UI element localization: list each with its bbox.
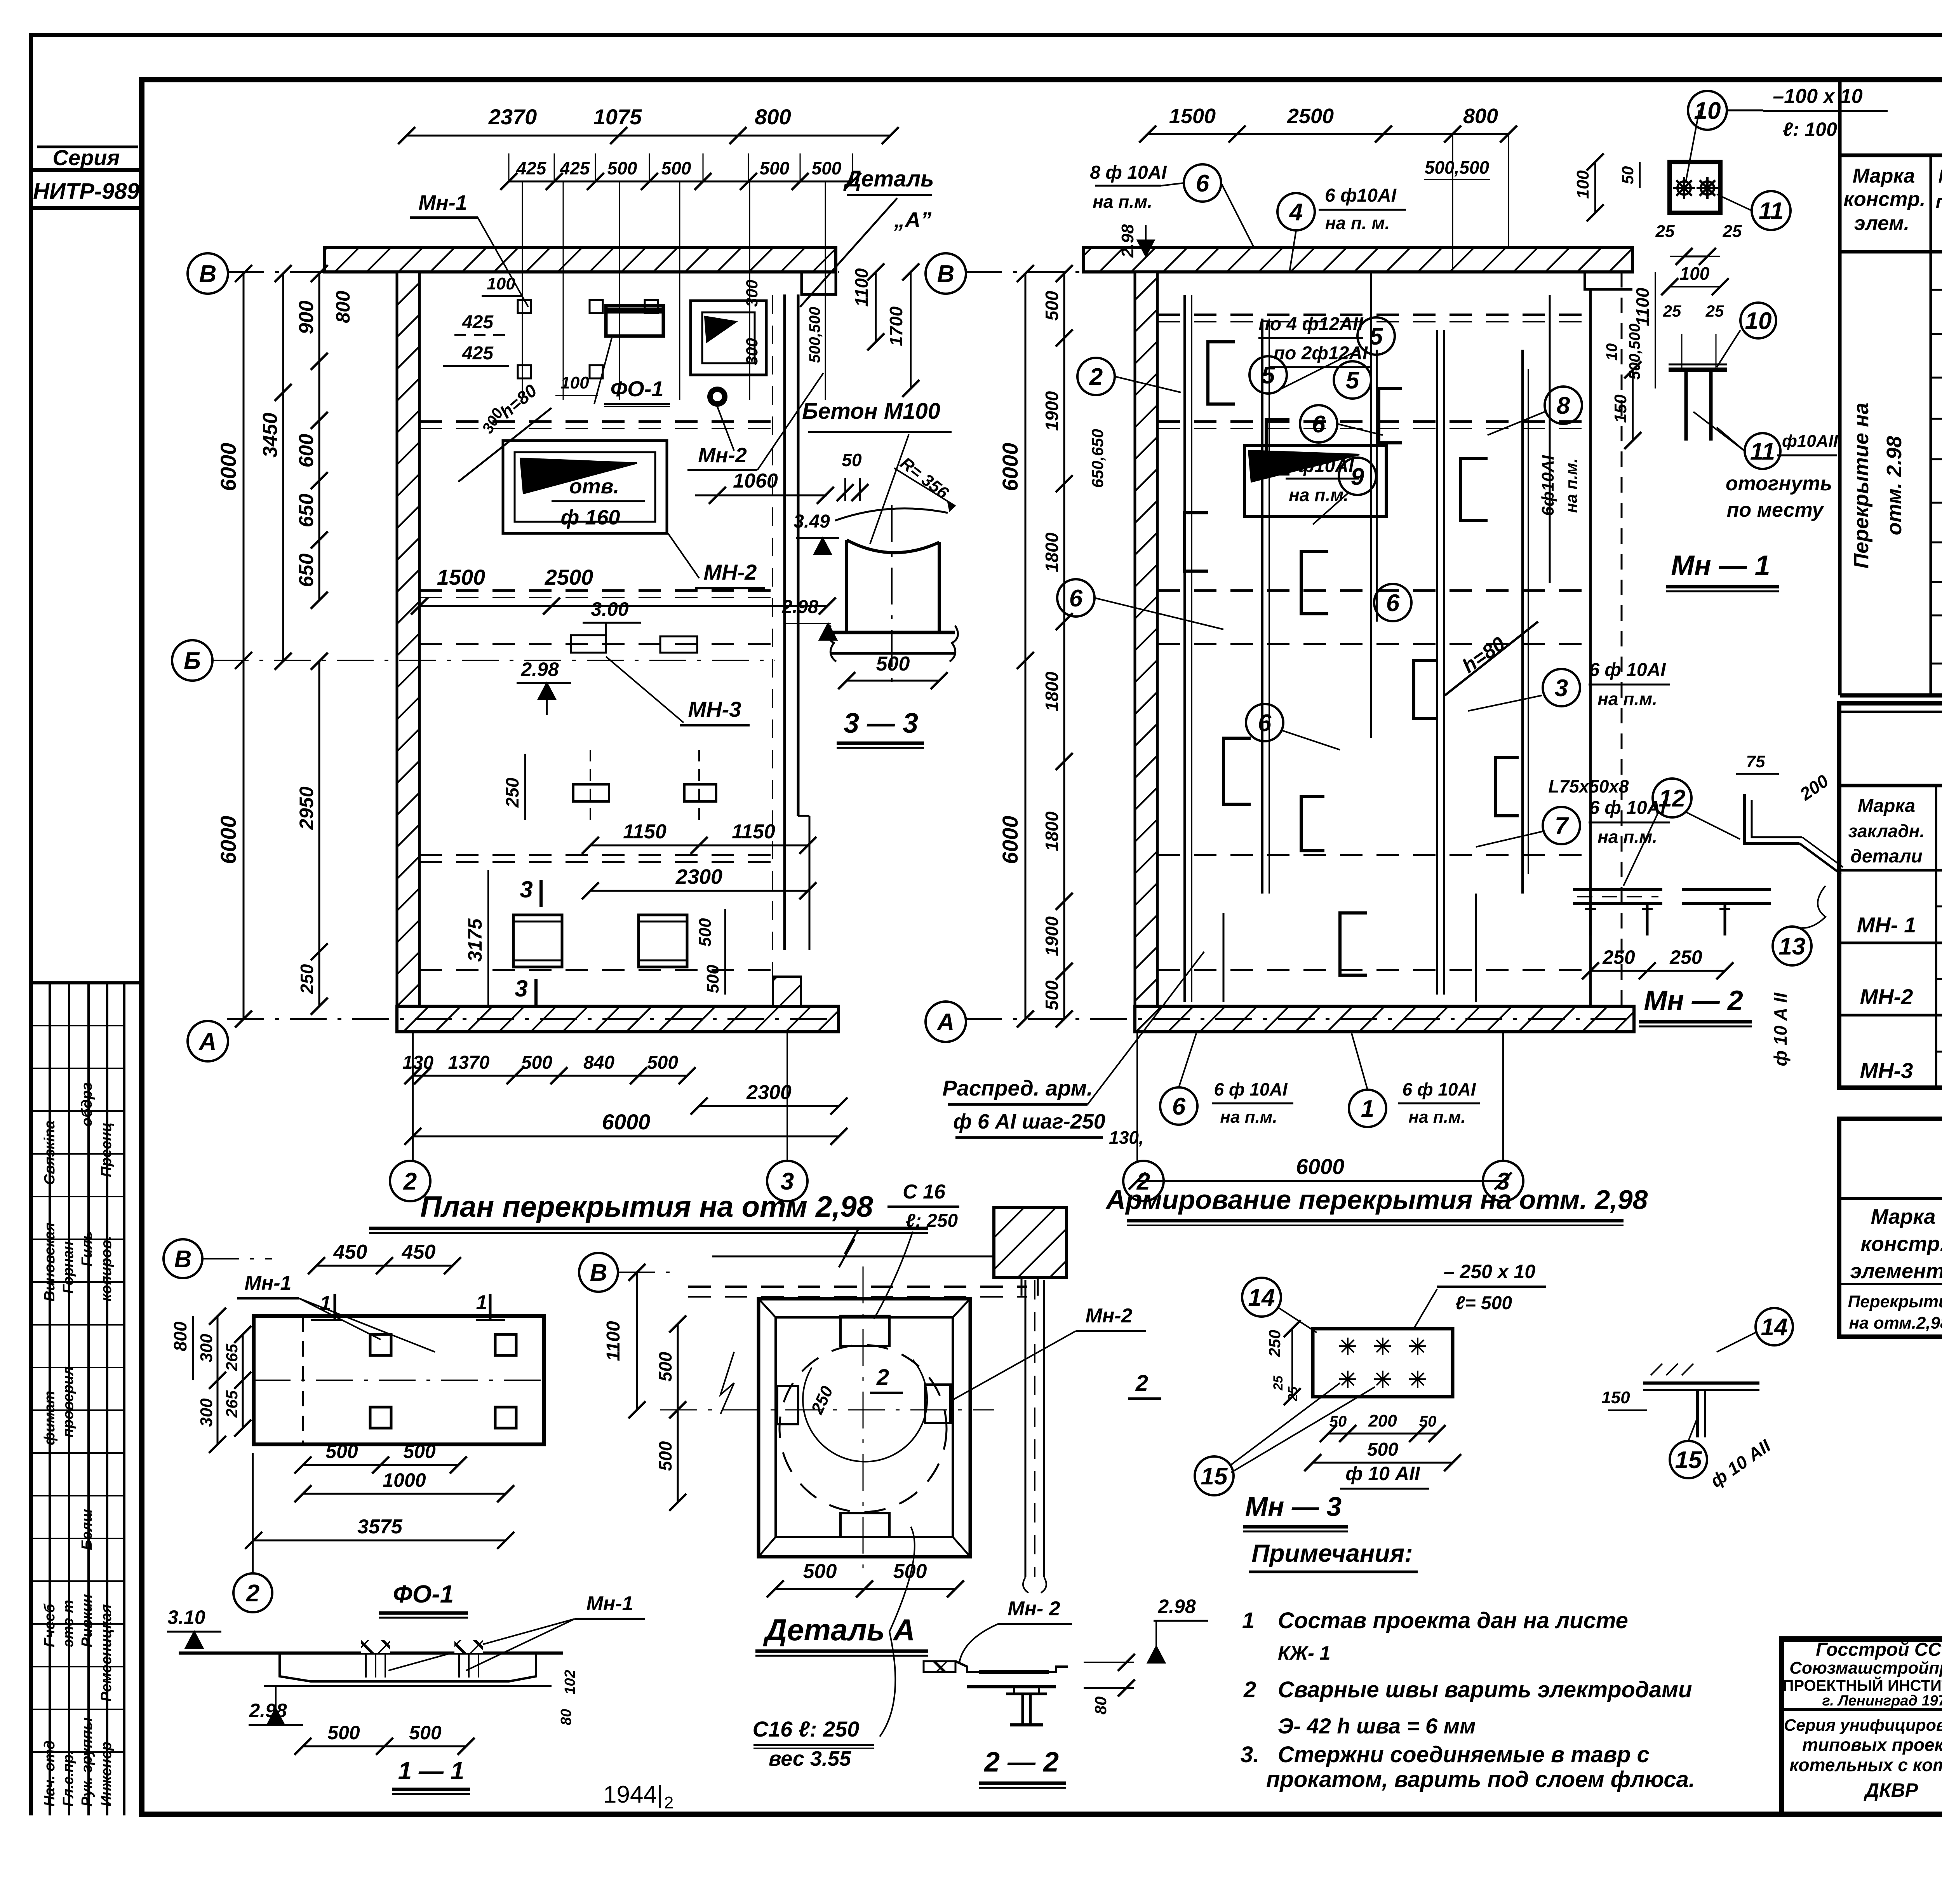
Mn3 dims bottom <box>1304 1411 1461 1471</box>
right circled 6b <box>1374 584 1411 621</box>
svg-text:300: 300 <box>197 1334 216 1362</box>
svg-text:Перекрытие на: Перекрытие на <box>1850 402 1873 568</box>
titleblock org <box>1783 1639 1942 1801</box>
axis line B <box>227 271 839 273</box>
svg-text:500: 500 <box>703 965 722 993</box>
circled 4 top <box>1277 185 1406 272</box>
sec11 label Mn1 <box>388 1592 645 1671</box>
svg-text:элемента: элемента <box>1850 1259 1942 1283</box>
left plan title <box>369 1190 928 1233</box>
svg-text:250: 250 <box>297 964 317 994</box>
axis line Bm <box>212 660 775 661</box>
notes heading <box>1249 1539 1418 1572</box>
svg-text:150: 150 <box>1601 1388 1630 1407</box>
svg-text:250: 250 <box>1602 946 1635 968</box>
svg-text:100: 100 <box>1573 170 1592 199</box>
FO1 axis 2 <box>233 1453 272 1612</box>
table2 header text <box>1848 788 1942 868</box>
svg-text:25: 25 <box>1663 302 1681 320</box>
detA top dashed <box>688 1287 1027 1297</box>
svg-text:на п.м.: на п.м. <box>1597 827 1657 847</box>
svg-text:Союзмашстройпроект: Союзмашстройпроект <box>1789 1658 1942 1678</box>
small rects mid <box>571 635 697 653</box>
svg-text:300: 300 <box>743 338 761 365</box>
svg-text:8: 8 <box>1557 392 1570 419</box>
dashed line y1658 <box>419 643 771 645</box>
svg-text:ДКВР: ДКВР <box>1864 1779 1918 1801</box>
right dim chain 500-1900 <box>1042 265 1073 1028</box>
svg-text:В: В <box>199 261 217 287</box>
page outer border top <box>29 33 1942 37</box>
svg-text:1: 1 <box>1361 1096 1374 1122</box>
svg-text:9: 9 <box>1351 463 1364 490</box>
detA label Mn-2 <box>952 1305 1146 1401</box>
svg-text:НИТР-989: НИТР-989 <box>33 179 139 204</box>
svg-text:250: 250 <box>1669 946 1702 968</box>
svg-text:Мн — 2: Мн — 2 <box>1644 985 1743 1016</box>
right top dim 500500 <box>1424 134 1509 272</box>
circled 6 top <box>1184 164 1255 249</box>
right circled 2 <box>1077 358 1181 395</box>
opening otv f160 <box>503 441 667 533</box>
svg-text:265: 265 <box>223 1390 241 1418</box>
svg-text:2.98: 2.98 <box>1157 1596 1196 1617</box>
svg-text:Рук. группы: Рук. группы <box>79 1718 95 1806</box>
svg-text:ПРОЕКТНЫЙ ИНСТИТУТ №1: ПРОЕКТНЫЙ ИНСТИТУТ №1 <box>1783 1676 1942 1694</box>
Mn1 side view <box>1663 302 1776 441</box>
svg-text:500,500: 500,500 <box>1425 157 1490 178</box>
sec11 mark 298 <box>249 1686 303 1725</box>
svg-text:Мн- 2: Мн- 2 <box>1008 1597 1060 1620</box>
Mn3 circled 14 <box>1242 1278 1317 1333</box>
table3 header <box>1850 1201 1942 1284</box>
svg-text:200: 200 <box>1368 1411 1397 1430</box>
Mn1 circled 11a <box>1717 191 1791 230</box>
svg-text:3: 3 <box>515 976 527 1002</box>
svg-text:25: 25 <box>1705 302 1724 320</box>
Mn2 title <box>1639 985 1752 1026</box>
svg-text:детали: детали <box>1850 846 1923 867</box>
section 3-3 body <box>828 505 958 684</box>
Mn3 title <box>1243 1491 1348 1531</box>
svg-text:3.10: 3.10 <box>167 1606 205 1628</box>
svg-text:500: 500 <box>661 158 691 178</box>
svg-text:План перекрытия на отм 2,98: План перекрытия на отм 2,98 <box>420 1190 874 1223</box>
label MH-3 <box>606 657 750 725</box>
svg-text:ℓ: 250: ℓ: 250 <box>906 1211 958 1231</box>
svg-text:Сварные швы варить электродами: Сварные швы варить электродами <box>1278 1677 1692 1702</box>
FO1 anchors <box>370 1334 516 1428</box>
svg-text:закладн.: закладн. <box>1848 821 1925 841</box>
label 3.00 <box>583 598 641 641</box>
dashed row y2497 <box>419 969 771 971</box>
svg-text:300: 300 <box>197 1398 216 1427</box>
svg-text:840: 840 <box>583 1052 614 1073</box>
slope mark h80 <box>458 380 552 482</box>
svg-text:5: 5 <box>1369 323 1383 350</box>
svg-text:Связкina: Связкina <box>42 1120 58 1185</box>
svg-text:150: 150 <box>1611 394 1630 423</box>
svg-text:6: 6 <box>1312 411 1326 438</box>
svg-text:типовых проектов: типовых проектов <box>1802 1735 1942 1755</box>
svg-text:N N: N N <box>1939 166 1942 187</box>
svg-text:1500: 1500 <box>1169 105 1216 128</box>
right plan title <box>1105 1185 1648 1225</box>
right opening box <box>1244 446 1386 517</box>
right circled 7 <box>1476 798 1670 847</box>
svg-text:3: 3 <box>520 876 532 902</box>
svg-text:500: 500 <box>803 1560 837 1583</box>
svg-text:2500: 2500 <box>545 565 593 589</box>
right plan right edge <box>1590 272 1622 1006</box>
svg-text:130,: 130, <box>1109 1127 1144 1148</box>
FO1 dims bottom <box>245 1441 514 1549</box>
svg-text:500: 500 <box>655 1441 675 1471</box>
table3 outer <box>1839 1119 1942 1337</box>
svg-text:Состав проекта дан на листе: Состав проекта дан на листе <box>1278 1608 1628 1633</box>
left plan top dim row1 <box>398 105 899 144</box>
svg-text:Мн-1: Мн-1 <box>586 1592 633 1615</box>
right axis circle B <box>926 253 966 294</box>
svg-text:800: 800 <box>1463 105 1498 128</box>
svg-text:2.98: 2.98 <box>1118 224 1137 258</box>
svg-text:Гл.с.пр.: Гл.с.пр. <box>60 1750 77 1806</box>
sec22 mark 298 <box>1148 1596 1208 1663</box>
svg-text:500: 500 <box>327 1722 360 1744</box>
Mn3 label 250x10 <box>1414 1261 1546 1329</box>
footing box 2 <box>639 915 687 967</box>
svg-text:500: 500 <box>403 1441 436 1462</box>
svg-text:3: 3 <box>1555 675 1568 702</box>
axis circle 2 right <box>1123 1033 1164 1201</box>
svg-text:50: 50 <box>842 450 862 470</box>
svg-text:500: 500 <box>521 1052 552 1073</box>
Mn2 dims <box>1582 886 1825 1066</box>
svg-text:500: 500 <box>655 1352 675 1381</box>
label 2.98 left <box>517 658 571 715</box>
svg-text:ФО-1: ФО-1 <box>393 1580 454 1608</box>
svg-text:МН-3: МН-3 <box>688 697 741 721</box>
svg-text:Преснц: Преснц <box>98 1122 115 1177</box>
svg-text:2: 2 <box>1089 364 1103 390</box>
small sq markers <box>518 300 658 378</box>
Mn2 bars <box>1573 890 1771 935</box>
dim 300 300 <box>743 280 761 365</box>
right plan interior <box>1185 272 1550 1002</box>
svg-text:1944|: 1944| <box>603 1781 663 1808</box>
svg-text:отм. 2.98: отм. 2.98 <box>1883 436 1906 535</box>
svg-text:Бетон М100: Бетон М100 <box>802 399 940 424</box>
detA box <box>660 1266 994 1570</box>
svg-text:500,500: 500,500 <box>1626 324 1643 380</box>
svg-text:Мн-2: Мн-2 <box>698 444 747 467</box>
svg-text:11: 11 <box>1750 438 1775 465</box>
svg-text:1150: 1150 <box>732 820 775 843</box>
svg-text:500: 500 <box>1042 980 1062 1010</box>
svg-text:L75х50х8: L75х50х8 <box>1548 776 1629 796</box>
svg-text:А: А <box>198 1028 217 1055</box>
detA dims left <box>603 1264 686 1511</box>
left plan left wall <box>397 272 419 1006</box>
Mn1 plate plan <box>1670 110 1720 213</box>
right label 298 rot <box>1118 224 1154 258</box>
svg-text:–100 х 10: –100 х 10 <box>1773 85 1862 108</box>
label FO-1 <box>594 338 670 406</box>
opening FO-1 rect <box>606 306 663 336</box>
right bottom circled 1 <box>1349 1033 1480 1127</box>
svg-text:В: В <box>590 1259 607 1286</box>
svg-text:1800: 1800 <box>1042 532 1062 572</box>
svg-text:80: 80 <box>1091 1697 1110 1715</box>
svg-text:Мн-1: Мн-1 <box>245 1272 292 1294</box>
section mark 3 lower <box>515 976 536 1006</box>
svg-text:2: 2 <box>664 1793 673 1812</box>
svg-text:КЖ- 1: КЖ- 1 <box>1278 1642 1330 1664</box>
svg-text:6: 6 <box>1196 170 1209 197</box>
svg-text:11: 11 <box>1759 198 1784 225</box>
table2 outer <box>1839 703 1942 1088</box>
sec11 title <box>392 1757 470 1794</box>
svg-text:2 — 2: 2 — 2 <box>983 1747 1059 1778</box>
table3 data <box>1848 1292 1942 1333</box>
seriya box <box>31 145 142 208</box>
table1 side label <box>1850 402 1906 568</box>
svg-text:ℓ: 100: ℓ: 100 <box>1783 118 1837 140</box>
svg-text:2.98: 2.98 <box>781 597 818 617</box>
svg-text:6000: 6000 <box>216 443 240 491</box>
svg-text:на п.м.: на п.м. <box>1289 485 1349 505</box>
svg-text:800: 800 <box>755 105 791 129</box>
svg-text:Мн-1: Мн-1 <box>418 191 467 214</box>
svg-text:2300: 2300 <box>746 1081 792 1104</box>
svg-text:500: 500 <box>893 1560 927 1583</box>
label MH-2 low <box>668 533 765 588</box>
svg-text:50: 50 <box>1329 1413 1347 1430</box>
detA break line top <box>712 1228 1006 1267</box>
opening square top <box>691 301 766 375</box>
dim chain 900-600-650 <box>295 265 354 609</box>
dim 100 lower <box>555 373 598 395</box>
svg-text:Ремесницкая: Ремесницкая <box>98 1604 115 1702</box>
svg-text:250: 250 <box>1265 1330 1284 1357</box>
svg-text:вес 3.55: вес 3.55 <box>769 1747 851 1770</box>
svg-text:2: 2 <box>876 1365 889 1390</box>
svg-text:1060: 1060 <box>733 470 778 492</box>
sec11 dims <box>294 1670 578 1755</box>
right plan top wall band <box>1084 247 1632 289</box>
svg-text:500: 500 <box>696 918 715 947</box>
tee detail <box>1601 1308 1793 1491</box>
dim chain 6000 left <box>216 265 252 1028</box>
svg-text:10: 10 <box>1745 308 1772 334</box>
svg-text:г. Ленинград 1970г: г. Ленинград 1970г <box>1822 1693 1942 1709</box>
FO1 section marks 1 <box>311 1291 505 1320</box>
svg-text:500: 500 <box>760 158 790 178</box>
svg-text:МН-3: МН-3 <box>1860 1058 1913 1083</box>
table3 grid <box>1839 1198 1942 1337</box>
right circled 9 <box>1313 458 1376 524</box>
svg-text:ф 160: ф 160 <box>561 506 620 529</box>
black dot node <box>707 387 727 407</box>
svg-text:констр.: констр. <box>1860 1232 1942 1256</box>
svg-text:ф 6 АI шаг-250: ф 6 АI шаг-250 <box>953 1110 1105 1133</box>
svg-text:15: 15 <box>1675 1447 1702 1474</box>
right dim chain 6000 <box>998 265 1034 1028</box>
svg-text:Примечания:: Примечания: <box>1251 1539 1413 1567</box>
svg-text:10: 10 <box>1603 343 1620 361</box>
svg-text:6: 6 <box>1069 585 1083 612</box>
dim 3175 <box>464 870 488 1006</box>
section mark 3 upper <box>520 876 541 907</box>
label Mn-2 top <box>687 373 823 470</box>
svg-text:13: 13 <box>1779 933 1806 960</box>
svg-text:на п.м.: на п.м. <box>1220 1108 1277 1127</box>
svg-text:25: 25 <box>1723 222 1742 241</box>
svg-text:1800: 1800 <box>1042 671 1062 711</box>
svg-text:3.49: 3.49 <box>794 511 830 532</box>
svg-text:Виновская: Виновская <box>42 1223 58 1301</box>
svg-text:1500: 1500 <box>437 565 486 589</box>
Mn1 bolts <box>1673 177 1718 199</box>
strip openings row <box>573 750 716 820</box>
svg-text:6000: 6000 <box>1296 1154 1345 1179</box>
Mn3 plate <box>1313 1329 1453 1397</box>
svg-text:Перекрытие: Перекрытие <box>1848 1292 1942 1311</box>
dim 1500 2500 <box>411 565 836 615</box>
svg-text:500: 500 <box>1367 1439 1398 1460</box>
right plan bottom wall band <box>1135 1006 1634 1032</box>
svg-text:Гчсеб: Гчсеб <box>42 1603 58 1647</box>
svg-text:2: 2 <box>403 1168 417 1195</box>
svg-text:6 ф 10АI: 6 ф 10АI <box>1214 1079 1288 1099</box>
svg-text:75: 75 <box>1746 752 1765 771</box>
svg-text:25: 25 <box>1655 222 1675 241</box>
svg-text:300: 300 <box>743 280 761 307</box>
dashed line y1520 <box>419 591 771 598</box>
label detail A ref <box>800 166 934 307</box>
svg-text:Марка: Марка <box>1871 1205 1936 1228</box>
svg-text:Армирование перекрытия на отм.: Армирование перекрытия на отм. 2,98 <box>1105 1185 1648 1215</box>
svg-text:констр.: констр. <box>1844 188 1926 211</box>
Mn1 side dims <box>1603 343 1838 469</box>
svg-text:3450: 3450 <box>259 413 282 458</box>
dim 500 rot pair <box>696 909 725 995</box>
Mn3 circled 15 <box>1195 1383 1429 1495</box>
svg-text:12: 12 <box>1659 785 1686 812</box>
svg-text:5: 5 <box>1262 362 1276 389</box>
svg-text:6 ф 10АI: 6 ф 10АI <box>1402 1079 1476 1099</box>
svg-text:50: 50 <box>1419 1413 1437 1430</box>
svg-text:Белш: Белш <box>79 1509 95 1550</box>
detA inner label 2 <box>807 1365 1161 1417</box>
note 1 <box>1242 1608 1628 1664</box>
svg-text:элем.: элем. <box>1854 212 1909 235</box>
right texts 4f12 <box>1258 314 1371 367</box>
svg-text:Распред. арм.: Распред. арм. <box>942 1076 1093 1100</box>
svg-text:фимат: фимат <box>42 1391 58 1445</box>
left plan bottom dims <box>402 1052 847 1145</box>
svg-text:обдрг: обдрг <box>79 1082 95 1127</box>
svg-text:14: 14 <box>1248 1284 1275 1311</box>
axis circle 3 right <box>1483 1033 1523 1201</box>
svg-text:102: 102 <box>562 1670 578 1694</box>
svg-text:А: А <box>936 1009 955 1036</box>
detA title <box>755 1613 928 1656</box>
dim 250 rot <box>502 754 525 820</box>
dim 2300 mid <box>582 865 816 899</box>
sec22 title <box>979 1747 1066 1788</box>
note 3 <box>1241 1742 1695 1792</box>
svg-text:100: 100 <box>487 274 515 293</box>
svg-text:6: 6 <box>1172 1093 1186 1120</box>
svg-text:отогнуть: отогнуть <box>1726 472 1832 495</box>
svg-text:6000: 6000 <box>602 1110 651 1134</box>
svg-text:425: 425 <box>462 312 494 333</box>
svg-text:Марка: Марка <box>1858 796 1915 816</box>
svg-text:500,500: 500,500 <box>806 307 823 363</box>
svg-text:„А”: „А” <box>894 207 931 232</box>
svg-text:на п.м.: на п.м. <box>1093 192 1152 212</box>
svg-text:6000: 6000 <box>998 443 1022 491</box>
detA hatched square <box>994 1207 1067 1296</box>
svg-text:80: 80 <box>558 1709 574 1725</box>
FO1 plate <box>254 1316 544 1444</box>
svg-text:1100: 1100 <box>1632 287 1653 326</box>
Mn2 circled 12 <box>1548 776 1740 886</box>
svg-text:ℓ= 500: ℓ= 500 <box>1455 1293 1512 1313</box>
svg-text:425: 425 <box>462 343 494 364</box>
signature table <box>31 983 142 1815</box>
svg-text:1: 1 <box>1242 1608 1255 1633</box>
svg-text:этс-т: этс-т <box>60 1600 77 1647</box>
svg-text:1900: 1900 <box>1042 391 1062 431</box>
svg-text:450: 450 <box>402 1241 436 1263</box>
svg-text:на п. м.: на п. м. <box>1325 213 1390 233</box>
right top dims <box>1139 105 1517 143</box>
table1 header text <box>1844 162 1942 243</box>
svg-text:Серия унифицированных: Серия унифицированных <box>1784 1716 1942 1735</box>
svg-text:2: 2 <box>246 1580 259 1607</box>
detA right edge lines <box>1023 1280 1046 1593</box>
svg-text:4: 4 <box>1289 199 1303 226</box>
svg-text:6000: 6000 <box>998 816 1022 864</box>
svg-text:7: 7 <box>1555 813 1569 840</box>
right plan left wall <box>1135 272 1157 1006</box>
svg-text:прокатом, варить под слоем ф: прокатом, варить под слоем флюса. <box>1266 1767 1695 1792</box>
section 3-3 title <box>837 708 924 748</box>
left plan bottom wall band <box>397 1006 839 1032</box>
svg-text:25: 25 <box>1271 1375 1286 1391</box>
svg-text:Стержни соединяемые в тавр с: Стержни соединяемые в тавр с <box>1278 1742 1650 1767</box>
FO1 dims top <box>308 1241 461 1274</box>
svg-text:Мн — 3: Мн — 3 <box>1245 1491 1342 1522</box>
svg-text:1150: 1150 <box>623 820 666 843</box>
svg-text:6: 6 <box>1258 710 1272 737</box>
label beton M100 <box>802 399 952 544</box>
svg-text:650,650: 650,650 <box>1088 429 1107 488</box>
svg-text:2: 2 <box>1243 1677 1256 1702</box>
Mn1 circled 10 <box>1688 91 1763 130</box>
svg-text:копиров.: копиров. <box>98 1236 115 1301</box>
right bottom circled 6 <box>1160 1033 1293 1127</box>
left plan right side dims <box>806 263 919 397</box>
table1 grid header <box>1840 80 1942 695</box>
svg-text:Деталь: Деталь <box>843 166 934 192</box>
svg-text:Нач. отд: Нач. отд <box>42 1740 58 1806</box>
svg-text:1: 1 <box>320 1292 331 1315</box>
titleblock outer <box>1782 1639 1942 1814</box>
svg-text:5: 5 <box>1346 367 1360 394</box>
